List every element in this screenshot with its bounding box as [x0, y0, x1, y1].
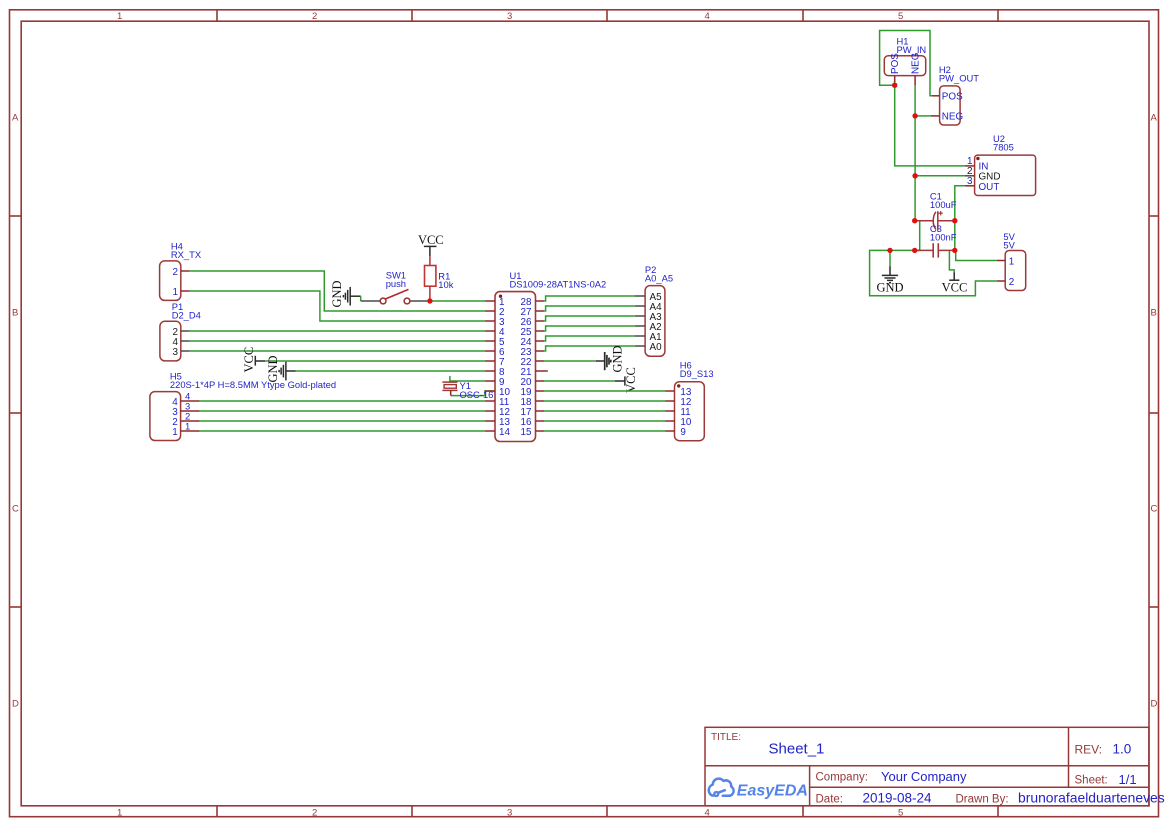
wire P1.3 to U1.6: [190, 350, 485, 352]
junction C1 left: [912, 218, 917, 223]
wire P1.4 to U1.5: [190, 340, 485, 342]
wire U1.25 to P2.A2: [544, 326, 635, 331]
svg-text:POS: POS: [890, 53, 901, 74]
svg-text:VCC: VCC: [242, 347, 256, 373]
svg-text:DS1009-28AT1NS-0A2: DS1009-28AT1NS-0A2: [510, 279, 607, 290]
wire VCC symbol drop: [949, 250, 954, 272]
wire U1.24 to P2.A1: [544, 336, 635, 341]
wire U1.15 to H6.9: [544, 430, 665, 432]
wire H4.2 to U1.2: [190, 271, 485, 311]
svg-text:14: 14: [499, 427, 510, 438]
svg-text:Sheet:: Sheet:: [1075, 775, 1108, 787]
connector 5V: [997, 231, 1026, 291]
ground symbol (power section): [882, 266, 898, 282]
connector H2 PW_OUT: [931, 64, 979, 125]
svg-text:2: 2: [312, 808, 317, 819]
svg-text:100nF: 100nF: [930, 231, 957, 242]
wire U1.27 to P2.A4: [544, 306, 635, 311]
frame row letters: [12, 113, 1158, 710]
wire GND to U1.8: [296, 370, 485, 372]
svg-text:POS: POS: [942, 92, 963, 103]
connector H5: [150, 371, 336, 441]
svg-text:1: 1: [172, 427, 178, 438]
svg-text:1: 1: [117, 11, 122, 22]
svg-text:push: push: [386, 278, 406, 289]
svg-text:1: 1: [185, 422, 190, 433]
wire H1.NEG down to C1 row: [914, 85, 916, 221]
svg-text:4: 4: [705, 11, 710, 22]
svg-text:B: B: [12, 308, 18, 319]
wire to U2.GND: [915, 175, 965, 177]
wire U2.OUT down to C3 row: [955, 186, 965, 251]
junction H2.NEG: [912, 113, 917, 118]
svg-text:RX_TX: RX_TX: [171, 249, 202, 260]
svg-text:2: 2: [173, 267, 179, 278]
wire H5.2 to U1.13: [200, 420, 485, 422]
svg-text:GND: GND: [876, 281, 903, 295]
wire Y1 bottom to U1.10: [451, 391, 495, 396]
ground symbol (SW1 left): [343, 287, 360, 306]
svg-text:Drawn By:: Drawn By:: [956, 794, 1009, 806]
svg-text:B: B: [1151, 308, 1157, 319]
svg-text:10k: 10k: [438, 279, 453, 290]
junction C3 right: [952, 248, 957, 253]
svg-text:GND: GND: [330, 280, 344, 307]
svg-text:3: 3: [173, 347, 179, 358]
svg-text:VCC: VCC: [942, 281, 968, 295]
wire U1.19 to H6.13: [544, 390, 665, 392]
wire U1.23 to P2.A0: [544, 346, 635, 351]
svg-text:VCC: VCC: [418, 233, 444, 247]
svg-text:C: C: [1151, 504, 1158, 515]
resistor R1 10k: [425, 256, 454, 301]
svg-text:brunorafaelduarteneves: brunorafaelduarteneves: [1018, 790, 1165, 806]
svg-text:3: 3: [967, 176, 973, 187]
crystal Y1 OSC-16: [442, 380, 493, 400]
title block: [705, 727, 1149, 806]
wire jog C1row-C3row: [915, 221, 920, 251]
wire H1.POS loop to H2.POS: [880, 31, 933, 96]
svg-text:D: D: [12, 699, 19, 710]
wire U1.26 to P2.A3: [544, 316, 635, 321]
svg-text:Sheet_1: Sheet_1: [769, 740, 825, 757]
svg-text:A: A: [1151, 113, 1158, 124]
wire U1.18 to H6.12: [544, 400, 665, 402]
chip U1: [485, 270, 606, 442]
wire H5.3 to U1.12: [200, 410, 485, 412]
vcc symbol (U1.20): [615, 367, 638, 393]
svg-text:OUT: OUT: [979, 182, 1000, 193]
wire U1.28 to P2.A5: [544, 296, 635, 301]
svg-text:3: 3: [507, 808, 512, 819]
wire C3 row left + GND loop to 5V.2: [870, 250, 997, 295]
svg-text:PW_OUT: PW_OUT: [939, 73, 979, 84]
svg-text:NEG: NEG: [942, 112, 963, 123]
svg-text:4: 4: [705, 808, 710, 819]
svg-text:GND: GND: [611, 345, 625, 372]
ground symbol (U1.22): [596, 345, 625, 372]
svg-text:1/1: 1/1: [1119, 772, 1137, 787]
connector H1 PW_IN: [884, 36, 926, 86]
svg-text:100uF: 100uF: [930, 199, 957, 210]
vcc symbol (above R1): [418, 233, 444, 256]
junction dot SW1/R1: [427, 298, 432, 303]
svg-text:9: 9: [680, 427, 686, 438]
svg-text:2: 2: [1009, 277, 1015, 288]
wire VCC to U1.7: [265, 360, 485, 362]
svg-text:1: 1: [117, 808, 122, 819]
svg-text:Company:: Company:: [816, 772, 868, 784]
wire H4.1 to U1.3: [190, 291, 485, 321]
svg-text:2: 2: [312, 11, 317, 22]
regulator U2 7805: [965, 133, 1036, 196]
svg-text:C: C: [12, 504, 19, 515]
connector P2 A0_A5: [635, 264, 673, 356]
wire GND symbol drop: [889, 250, 891, 266]
wire U1.20 to vcc: [544, 380, 615, 382]
switch SW1: [361, 270, 428, 304]
svg-text:220S-1*4P H=8.5MM Ytype Gold-p: 220S-1*4P H=8.5MM Ytype Gold-plated: [170, 379, 336, 390]
svg-text:Date:: Date:: [816, 794, 844, 806]
junction C1 right: [952, 218, 957, 223]
capacitor C3 100nF: [915, 223, 957, 258]
wire R1 junction to U1.1: [430, 300, 485, 302]
wire H1.POS down to U2.IN: [895, 81, 965, 166]
svg-text:A: A: [12, 113, 19, 124]
wire U1.22 to ground: [544, 360, 596, 362]
capacitor C1 100uF: [915, 191, 957, 231]
svg-text:Your Company: Your Company: [881, 769, 967, 784]
svg-text:D: D: [1151, 699, 1158, 710]
wire to H2.NEG: [915, 115, 931, 117]
svg-text:®: ®: [799, 787, 803, 794]
junction U2.GND: [912, 173, 917, 178]
svg-text:NEG: NEG: [910, 53, 921, 74]
wire H5.4 to U1.11: [200, 400, 485, 402]
svg-text:1.0: 1.0: [1113, 742, 1132, 757]
svg-text:5V: 5V: [1003, 240, 1015, 251]
svg-text:TITLE:: TITLE:: [711, 732, 741, 743]
svg-text:5: 5: [898, 808, 903, 819]
svg-text:1: 1: [173, 287, 179, 298]
svg-text:A0: A0: [650, 342, 663, 353]
svg-text:5: 5: [898, 11, 903, 22]
svg-text:EasyEDA: EasyEDA: [737, 783, 808, 800]
connector H6 D9_S13: [665, 360, 713, 441]
ground symbol (U1.8): [266, 355, 296, 382]
wire P1.2 to U1.4: [190, 330, 485, 332]
svg-text:D2_D4: D2_D4: [172, 310, 201, 321]
svg-text:D9_S13: D9_S13: [680, 368, 714, 379]
junction H1.POS/loop: [892, 83, 897, 88]
connector H4 RX_TX: [160, 241, 202, 301]
EasyEDA logo: [709, 779, 808, 800]
wire Y1 top to U1.9: [449, 376, 451, 382]
wire GND to SW1: [360, 296, 362, 301]
svg-text:VCC: VCC: [624, 367, 638, 393]
frame column numbers: [117, 11, 903, 819]
svg-text:1: 1: [1009, 256, 1015, 267]
connector P1 D2_D4: [160, 301, 201, 361]
wire U1.16 to H6.10: [544, 420, 665, 422]
svg-text:A0_A5: A0_A5: [645, 273, 673, 284]
svg-text:7805: 7805: [993, 142, 1014, 153]
wire U1.17 to H6.11: [544, 410, 665, 412]
wire to 5V.1: [956, 250, 997, 260]
vcc symbol (power section): [949, 272, 959, 280]
junction C3 left: [912, 248, 917, 253]
vcc symbol (U1.7): [242, 347, 265, 373]
svg-text:3: 3: [507, 11, 512, 22]
svg-text:REV:: REV:: [1075, 743, 1103, 757]
svg-text:15: 15: [521, 427, 532, 438]
svg-text:2019-08-24: 2019-08-24: [863, 791, 933, 806]
wire H5.1 to U1.14: [200, 430, 485, 432]
svg-text:GND: GND: [266, 355, 280, 382]
junction GND branch: [887, 248, 892, 253]
